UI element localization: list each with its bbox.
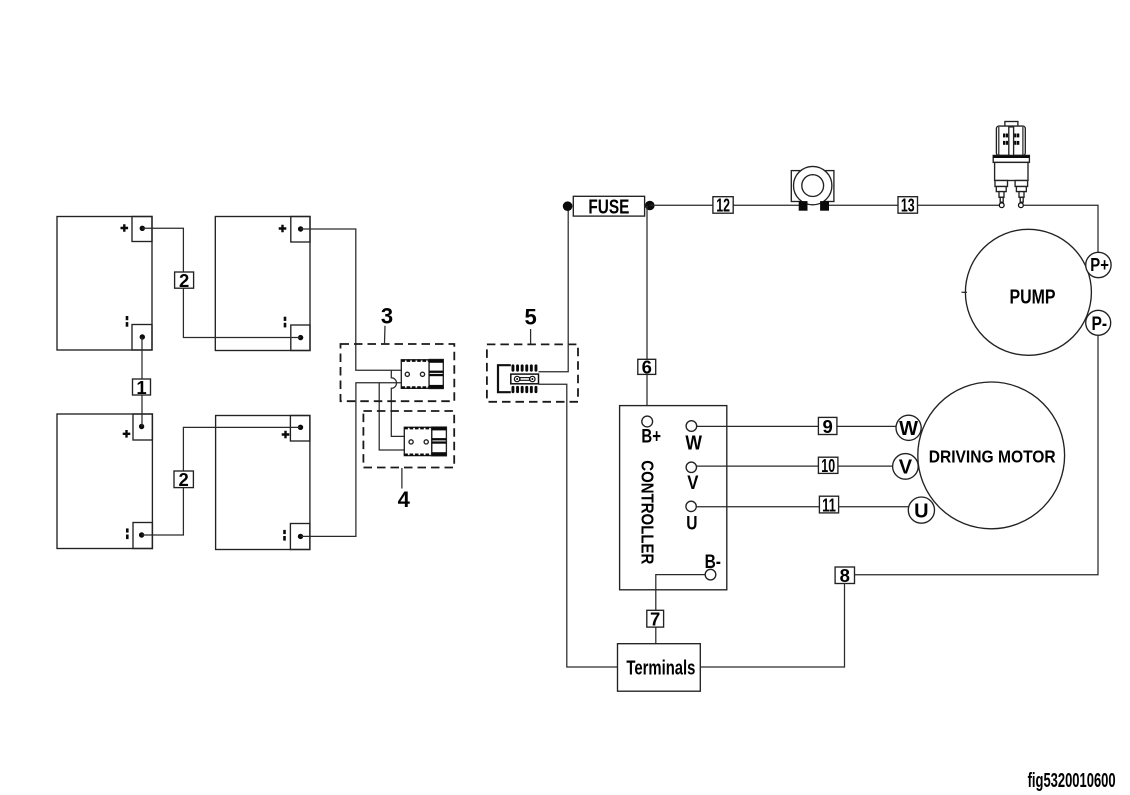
svg-text:3: 3 xyxy=(381,303,393,328)
svg-text:7: 7 xyxy=(650,609,660,630)
svg-text:10: 10 xyxy=(821,455,835,476)
callout box 2 (upper battery link) xyxy=(175,270,194,291)
callout box 2 (lower battery link) xyxy=(174,469,193,490)
svg-text:12: 12 xyxy=(716,195,730,216)
branch wire to connector 4 pin 2 xyxy=(379,383,404,450)
svg-text:9: 9 xyxy=(823,416,833,437)
wire callout 8 to terminals block xyxy=(700,584,844,668)
wire fuse to pump connector (top run) xyxy=(650,204,1000,206)
wire controller W to motor W xyxy=(692,425,897,427)
branch wire to connector 4 pin 1 with crossover hop xyxy=(391,370,404,436)
key switch (item 12 component) xyxy=(791,166,834,210)
wire B3- to B4+ xyxy=(142,427,301,535)
svg-text:DRIVING MOTOR: DRIVING MOTOR xyxy=(929,446,1056,466)
svg-text:B-: B- xyxy=(705,552,721,573)
dashed box item 4 xyxy=(363,411,454,468)
controller terminal W xyxy=(685,421,702,455)
callout box 1 xyxy=(133,377,151,398)
svg-text:P-: P- xyxy=(1092,314,1108,335)
terminal P- xyxy=(1086,310,1111,335)
svg-text:13: 13 xyxy=(901,195,915,216)
controller terminal U xyxy=(686,501,698,534)
wire pump connector to P+ xyxy=(1023,205,1098,252)
svg-text:6: 6 xyxy=(642,357,652,378)
wire controller U to motor U xyxy=(692,506,910,508)
terminal P+ xyxy=(1086,252,1111,277)
svg-text:PUMP: PUMP xyxy=(1010,285,1056,308)
callout box 7 xyxy=(647,609,664,630)
svg-text:B+: B+ xyxy=(641,426,661,447)
terminals block xyxy=(618,644,701,692)
svg-text:2: 2 xyxy=(179,469,189,490)
svg-text:W: W xyxy=(899,418,918,440)
wire B1+ to B2- xyxy=(142,228,300,337)
wire connector 5 pin 2 to terminals block xyxy=(539,384,618,667)
controller terminal V xyxy=(686,462,698,494)
controller U1 xyxy=(620,406,727,590)
svg-text:Terminals: Terminals xyxy=(626,658,695,680)
terminal U (motor side) xyxy=(908,497,934,523)
svg-text:8: 8 xyxy=(840,565,850,586)
callout box 12 xyxy=(713,195,733,216)
svg-text:CONTROLLER: CONTROLLER xyxy=(638,460,658,564)
svg-text:2: 2 xyxy=(179,270,189,291)
label 3 with leader xyxy=(381,303,393,343)
dashed box item 5 xyxy=(487,344,578,401)
wire connector 5 pin 1 to fuse xyxy=(539,207,569,372)
wire controller V to motor V xyxy=(692,465,894,467)
pump motor plug connector xyxy=(993,122,1029,208)
callout box 6 xyxy=(638,357,656,378)
terminal V (motor side) xyxy=(893,454,919,480)
wire P- to callout 8 xyxy=(855,335,1099,575)
svg-text:V: V xyxy=(899,457,913,479)
battery B3 (bottom-left) xyxy=(57,414,152,549)
connector 3 (battery connector) xyxy=(401,360,443,389)
svg-text:W: W xyxy=(685,432,702,454)
svg-text:fig5320010600: fig5320010600 xyxy=(1028,769,1116,792)
svg-text:11: 11 xyxy=(822,494,836,515)
wire B1- to B3+ xyxy=(141,337,143,427)
battery B1 (top-left) xyxy=(57,217,152,351)
svg-text:P+: P+ xyxy=(1090,254,1109,275)
dashed box item 3 xyxy=(341,344,455,401)
svg-text:4: 4 xyxy=(398,487,411,512)
driving motor M1 xyxy=(918,382,1065,529)
svg-text:U: U xyxy=(686,513,697,535)
terminal W (motor side) xyxy=(896,415,921,440)
wire fuse to controller B+ xyxy=(646,206,648,417)
callout box 10 xyxy=(818,455,838,476)
label 5 with leader xyxy=(524,305,536,344)
battery B4 (bottom-right of group) xyxy=(216,416,310,550)
callout box 9 xyxy=(818,416,837,437)
svg-text:5: 5 xyxy=(524,305,536,330)
controller terminal B+ xyxy=(641,416,661,447)
svg-text:U: U xyxy=(914,500,928,522)
label 4 with leader xyxy=(398,468,411,512)
controller terminal B- xyxy=(705,552,721,580)
fuse F1 xyxy=(563,196,655,218)
callout box 13 xyxy=(898,195,918,216)
connector 4 (battery connector) xyxy=(404,427,446,456)
callout box 11 xyxy=(819,494,838,515)
svg-text:V: V xyxy=(687,472,698,494)
wire B4- to connector 3 pin 2 xyxy=(301,383,402,537)
svg-text:1: 1 xyxy=(136,377,146,398)
battery B2 (top-right of group) xyxy=(215,217,310,351)
callout box 8 xyxy=(835,565,854,586)
pump motor M2 xyxy=(962,229,1092,355)
wire controller B- to terminals block xyxy=(656,575,705,644)
connector 5 (vehicle-side connector) xyxy=(498,364,539,393)
wire B2+ to connector 3 pin 1 xyxy=(301,229,402,370)
svg-text:FUSE: FUSE xyxy=(588,197,629,219)
